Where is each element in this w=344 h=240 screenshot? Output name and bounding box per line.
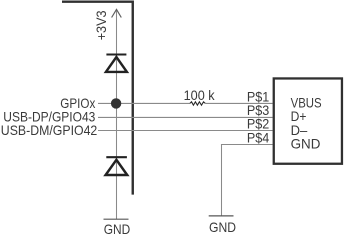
wire GPIOx net, left of resistor <box>98 102 190 104</box>
svg-text:P$4: P$4 <box>247 129 270 145</box>
svg-text:USB-DM/GPIO42: USB-DM/GPIO42 <box>1 122 98 138</box>
wire GPIOx net, resistor to pin P$1 <box>205 102 272 104</box>
wire +3V3 vertical net (arrow stem down through diodes to ground) <box>116 9 118 219</box>
+3V3 power symbol arrowhead <box>112 9 122 17</box>
resistor 100k zigzag <box>190 102 205 105</box>
wire pin P$4 to ground (horizontal) <box>221 144 273 146</box>
wire pin P$4 to ground (vertical) <box>221 144 223 216</box>
junction dot at GPIOx node <box>111 98 121 108</box>
ESD diode (top, anode at GPIOx node, cathode to +3V3) cathode bar <box>106 53 126 55</box>
svg-text:100 k: 100 k <box>184 87 216 103</box>
svg-text:GND: GND <box>104 221 131 234</box>
svg-text:GND: GND <box>291 135 321 151</box>
wire USB-DP/GPIO43 net to pin P$3 <box>98 116 273 118</box>
svg-text:+3V3: +3V3 <box>93 10 109 40</box>
module boundary frame (thick) <box>62 2 133 195</box>
ESD diode (top) triangle <box>106 57 127 72</box>
svg-text:GND: GND <box>209 219 236 234</box>
ground symbol (right) bar <box>209 215 234 217</box>
connector box (USB) <box>274 78 342 163</box>
ground symbol (left) bar <box>104 218 129 220</box>
ESD diode (bottom) triangle <box>106 160 128 175</box>
wire USB-DM/GPIO42 net to pin P$2 <box>98 130 273 132</box>
ESD diode (bottom, anode at GND, cathode to GPIOx node) cathode bar <box>106 156 127 158</box>
